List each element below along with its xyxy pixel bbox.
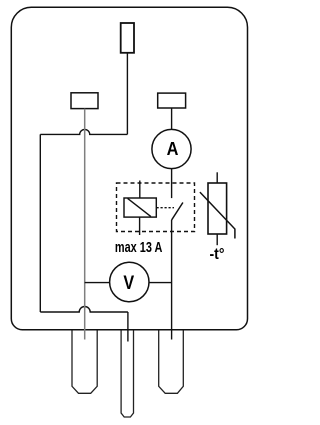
terminal box pin 3 <box>158 93 186 108</box>
mechanical link (dashed) <box>157 207 175 209</box>
voltmeter V <box>110 262 149 301</box>
wire left vertical <box>39 134 41 312</box>
wire from fuse down <box>126 53 128 134</box>
wire pin1 to voltmeter <box>85 282 110 284</box>
wire into pin 2 <box>127 312 129 342</box>
wire voltmeter to pin3 wire <box>149 282 172 284</box>
wire with crossover hop (upper horizontal) <box>40 129 127 134</box>
pin 2 blade <box>121 331 133 418</box>
wire with crossover hop (lower horizontal) <box>40 307 128 312</box>
wire switch down to pin 3 <box>171 220 173 340</box>
svg-text:-t°: -t° <box>210 246 225 263</box>
relay housing (dashed box) <box>117 183 195 232</box>
thermistor RT <box>200 172 235 245</box>
wire box to ammeter <box>171 108 173 129</box>
wire ammeter to switch <box>171 169 173 198</box>
relay body outline <box>11 7 247 330</box>
svg-text:max 13 A: max 13 A <box>115 240 162 256</box>
wire coil bottom lead <box>139 217 141 235</box>
relay coil K1 <box>124 198 156 217</box>
terminal box pin 1 <box>71 93 98 109</box>
ammeter A <box>152 129 191 168</box>
pin 1 blade <box>72 331 97 394</box>
wire coil top lead <box>139 181 141 199</box>
svg-text:A: A <box>167 139 179 159</box>
wire pin 1 (passes under crossovers) <box>84 109 86 340</box>
switch contact S1 <box>172 203 183 221</box>
fuse F1 <box>121 23 134 53</box>
svg-text:V: V <box>123 273 134 294</box>
pin 3 blade <box>159 331 184 394</box>
